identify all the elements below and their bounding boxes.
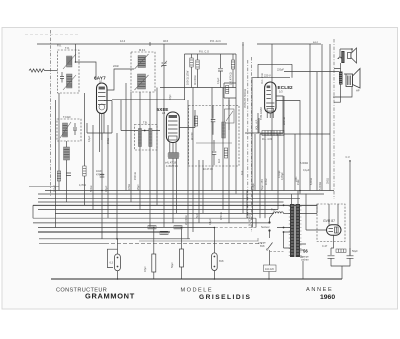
- coil L1b: [63, 74, 76, 90]
- resistor R14: [224, 148, 227, 158]
- coil L7: [222, 122, 226, 138]
- svg-text:ANNEE: ANNEE: [306, 287, 333, 293]
- capacitor C1: [60, 72, 64, 83]
- output transformer TR2 winding: [339, 72, 343, 85]
- resistor R2: [190, 54, 193, 88]
- coil L6b: [149, 129, 152, 147]
- wire filter bottom: [331, 266, 350, 279]
- bus line 8: [33, 217, 256, 219]
- svg-text:C.47: C.47: [322, 245, 328, 248]
- HF box top: [185, 54, 237, 100]
- wire V1 plate to T2: [107, 69, 134, 90]
- svg-text:50µF: 50µF: [352, 250, 358, 253]
- node dot T1: [75, 61, 77, 63]
- svg-text:40.000: 40.000: [191, 132, 194, 140]
- wire MF1 secondary drop: [139, 92, 141, 210]
- resistor R12: [83, 150, 86, 205]
- svg-text:1nF: 1nF: [241, 170, 244, 175]
- wire screen bus drop: [271, 44, 273, 191]
- node dots TR1: [283, 204, 285, 206]
- svg-text:5.000Ω: 5.000Ω: [300, 162, 308, 165]
- wire AVC mid drop: [192, 88, 194, 233]
- tweeter HP2: [348, 48, 357, 63]
- wire antenna coil drop: [55, 100, 57, 228]
- wire L4 leads: [66, 141, 68, 202]
- bus line 9: [33, 222, 269, 224]
- svg-text:MODELE: MODELE: [181, 288, 214, 294]
- bus line 8b dashed: [215, 227, 256, 229]
- tube V2 envelope: [166, 112, 179, 143]
- filter cap C12: [347, 248, 354, 266]
- svg-text:P.U.: P.U.: [57, 44, 62, 48]
- fold mark dashes top: [25, 34, 80, 36]
- svg-text:470KΩ: 470KΩ: [96, 174, 104, 177]
- bus line 10: [39, 238, 190, 240]
- svg-text:12.4: 12.4: [120, 39, 126, 43]
- HF box bottom: [160, 54, 236, 194]
- wire top HT rail left: [37, 43, 227, 45]
- wire switch chain: [269, 232, 271, 266]
- svg-text:6V8: 6V8: [219, 260, 224, 263]
- svg-text:C.V.: C.V.: [346, 156, 351, 159]
- wire grid leak drop: [283, 96, 285, 191]
- bus line 9b: [38, 218, 256, 227]
- wire AF coupling drop: [259, 134, 261, 218]
- svg-text:1960: 1960: [320, 294, 335, 301]
- wire HT drop: [294, 134, 296, 191]
- svg-text:6V8: 6V8: [260, 245, 265, 248]
- pilot lamp LP2: [212, 253, 218, 271]
- bus line 6: [38, 209, 278, 211]
- wire volume top drop: [228, 100, 230, 223]
- coil L5 below V2: [167, 153, 180, 159]
- transformer T2 dashed box: [131, 52, 155, 92]
- svg-text:220KΩ: 220KΩ: [283, 117, 286, 125]
- wire ECL82 grid feed: [258, 64, 292, 77]
- svg-text:TON.GRAV: TON.GRAV: [260, 107, 263, 120]
- wire antenna to T1: [51, 70, 58, 72]
- dial lamp LP1 bracket: [107, 249, 117, 267]
- capacitor C7: [66, 173, 71, 176]
- resistor R3: [196, 54, 199, 88]
- tweeter winding: [341, 51, 344, 63]
- wire V1 plate legs: [100, 114, 105, 153]
- capacitor C3: [73, 123, 77, 135]
- svg-text:T.O.: T.O.: [65, 46, 70, 50]
- svg-text:50µF: 50µF: [171, 262, 174, 268]
- capacitor C5: [211, 106, 216, 135]
- svg-text:10KΩ: 10KΩ: [265, 179, 268, 185]
- wire speaker to chassis: [333, 85, 352, 103]
- svg-text:GRISELIDIS: GRISELIDIS: [199, 294, 251, 301]
- coil L6a: [138, 129, 141, 147]
- grid resistor box: [224, 83, 236, 98]
- wire TR1 top feeds: [292, 191, 299, 205]
- wire heater down: [302, 261, 304, 279]
- resistor R9 on bus: [160, 231, 168, 234]
- svg-text:0,1µF: 0,1µF: [88, 135, 91, 142]
- capacitor C8: [100, 175, 105, 178]
- resistor R5 cathode: [262, 131, 284, 136]
- wire B+ rail drop: [329, 44, 331, 191]
- wire keyboard inner: [196, 142, 232, 144]
- svg-text:8+8µF: 8+8µF: [252, 182, 255, 190]
- svg-text:100pF: 100pF: [54, 184, 57, 192]
- electrolytic cap C9: [152, 229, 156, 279]
- transformer T1 dashed box: [58, 50, 80, 93]
- svg-text:350Ω: 350Ω: [327, 178, 330, 184]
- wire LP2 leads: [213, 228, 215, 280]
- coil L2b: [135, 74, 149, 90]
- svg-text:20.000Ω: 20.000Ω: [185, 215, 188, 225]
- wire 6AY7 grid link: [87, 101, 112, 134]
- svg-text:0,1µF: 0,1µF: [209, 218, 212, 225]
- keyboard unit dashed box: [189, 106, 240, 167]
- coil L4 below T3: [64, 147, 70, 160]
- svg-text:M.F.1: M.F.1: [139, 48, 146, 52]
- rectifier tube V4: [327, 225, 342, 235]
- junction dots: [101, 190, 103, 192]
- left stub: [32, 205, 34, 218]
- wire V3 legs: [267, 113, 273, 118]
- svg-text:5.000Ω: 5.000Ω: [319, 182, 322, 190]
- rectifier dashed box: [317, 204, 345, 242]
- svg-text:ECL82: ECL82: [278, 85, 294, 90]
- svg-text:GRAMMONT: GRAMMONT: [85, 292, 135, 301]
- wire speaker return: [349, 160, 351, 162]
- svg-text:Fus.: Fus.: [271, 208, 276, 212]
- coil L1a: [63, 54, 76, 69]
- chassis dashed line left: [50, 30, 52, 197]
- wire top rail right: [257, 43, 321, 45]
- wire volume feed: [252, 191, 254, 228]
- wire AF line: [139, 238, 258, 241]
- wire V1 plate B+ drop: [125, 83, 127, 191]
- svg-text:0,05µF: 0,05µF: [281, 172, 284, 180]
- svg-text:47pF: 47pF: [169, 94, 172, 100]
- wire rectifier bottom: [331, 235, 334, 248]
- resistor R6: [57, 171, 60, 181]
- wire L5 down: [173, 159, 177, 223]
- svg-text:6,8KΩ: 6,8KΩ: [310, 178, 313, 185]
- svg-text:POTENT. 500KΩ: POTENT. 500KΩ: [244, 89, 247, 108]
- wire ECL82 plate: [276, 101, 300, 194]
- wire trimmer drop: [163, 70, 165, 228]
- wire band switch drop: [242, 44, 244, 213]
- svg-text:220 V: 220 V: [264, 74, 271, 78]
- resistor R13: [194, 116, 197, 126]
- wire V1 grid return: [107, 125, 109, 218]
- bus line 11 faint: [39, 243, 105, 245]
- wire right top links: [284, 71, 339, 73]
- svg-text:T.B.: T.B.: [143, 121, 148, 125]
- svg-text:R.L. 4.09: R.L. 4.09: [262, 138, 273, 141]
- tweeter coil: [338, 57, 344, 59]
- tube V1 6AY7 envelope: [97, 83, 108, 114]
- wire detector drop: [222, 88, 224, 210]
- wire heater drop right: [309, 44, 311, 191]
- bus line 4: [38, 201, 284, 203]
- wire AVC stub left: [29, 186, 59, 188]
- wire rectifier left: [306, 194, 327, 231]
- svg-text:47µF: 47µF: [144, 266, 147, 272]
- svg-text:0,02µF: 0,02µF: [278, 170, 281, 178]
- wire AVC across: [112, 99, 185, 101]
- wire TR1 primary taps: [277, 205, 290, 248]
- chassis dashed line center: [251, 57, 253, 232]
- capacitor C4: [218, 54, 223, 88]
- svg-text:T.CAD: T.CAD: [63, 115, 71, 119]
- wire dashes to lamp feed: [270, 251, 284, 253]
- chassis dashed line right: [333, 39, 335, 199]
- svg-text:40.6: 40.6: [163, 39, 169, 43]
- svg-text:110.220: 110.220: [265, 268, 274, 271]
- wire osc grid: [121, 100, 160, 131]
- chassis dashed line center b: [247, 60, 249, 218]
- svg-text:cadran: cadran: [301, 259, 309, 262]
- svg-text:56: 56: [303, 249, 308, 254]
- svg-text:40.000Ω: 40.000Ω: [194, 75, 197, 85]
- wire padder drop: [202, 160, 204, 213]
- wire rectifier top: [329, 204, 338, 225]
- wire MF2 drop: [156, 88, 158, 206]
- bus line 5: [33, 204, 317, 206]
- wire ECL82 screen: [276, 96, 283, 133]
- wire T1 secondary drop: [58, 93, 60, 191]
- output stage box: [245, 118, 283, 133]
- wire cathode bypass drop: [264, 134, 266, 218]
- wire mixer drop: [211, 88, 213, 191]
- wire AGC cap drop: [149, 92, 151, 227]
- svg-text:0,1µF: 0,1µF: [217, 77, 220, 84]
- svg-text:BLINDAGE: BLINDAGE: [249, 213, 252, 226]
- mains fuse F1: [271, 208, 290, 214]
- bus line 1: [45, 190, 334, 192]
- wire ECL82 left: [252, 78, 258, 191]
- wire T1 to V1 grid: [76, 62, 97, 80]
- power transformer TR1 secondary: [296, 204, 302, 257]
- wire selector to bottom: [268, 272, 270, 280]
- wire V2 legs: [170, 143, 176, 153]
- wire LP1 leads: [117, 239, 119, 279]
- svg-text:a.s.t: a.s.t: [313, 40, 318, 44]
- capacitor C2 trimmer: [162, 44, 167, 70]
- bus line 9c: [38, 231, 170, 233]
- wire V1 screen drop: [101, 133, 103, 239]
- svg-text:5nF: 5nF: [196, 213, 199, 218]
- svg-text:Secteur: Secteur: [261, 226, 270, 229]
- svg-text:4.45.87.19: 4.45.87.19: [166, 165, 178, 168]
- power transformer TR1 primary: [289, 204, 295, 257]
- svg-text:P.O.-G.O.: P.O.-G.O.: [210, 39, 221, 43]
- wire T1 to rail: [75, 44, 77, 62]
- svg-text:22nF: 22nF: [113, 64, 119, 68]
- capacitor C6: [212, 140, 217, 165]
- bus line 7: [55, 212, 274, 214]
- resistor R10 on bus: [174, 226, 182, 229]
- bus line 2: [38, 193, 324, 195]
- svg-text:0,1µF: 0,1µF: [105, 185, 108, 192]
- wire tone cap drop: [254, 134, 256, 191]
- svg-text:200Ω: 200Ω: [107, 138, 110, 144]
- dial lamp LP1: [115, 254, 121, 271]
- bus line 3: [38, 198, 300, 200]
- bus line 11b: [105, 243, 262, 245]
- oscillator padder dashed box T4: [135, 125, 158, 151]
- oscillator coil T3 dashed box: [57, 119, 81, 141]
- wire output transformer connections: [334, 63, 346, 74]
- tube V3 ECL82 envelope: [265, 82, 276, 113]
- wire MF1 primary drop: [130, 92, 132, 202]
- wire center horizontal: [260, 133, 330, 135]
- coil L3: [60, 122, 71, 138]
- filter resistor R11: [336, 249, 346, 252]
- svg-text:1/3: 1/3: [279, 90, 283, 94]
- antenna input zigzag: [29, 69, 51, 72]
- wire V2 grid stub: [179, 110, 195, 128]
- wire tweeter top: [340, 49, 352, 57]
- svg-text:P.U. C.O: P.U. C.O: [199, 50, 209, 54]
- bottom return wire: [51, 278, 342, 280]
- resistor R4: [231, 54, 234, 88]
- wire dial lamp feed: [116, 133, 118, 239]
- voltage selector box: [264, 265, 277, 272]
- wire AVC left drop: [92, 125, 94, 210]
- svg-text:220pF: 220pF: [277, 69, 285, 72]
- wire chassis drop right: [321, 44, 323, 191]
- main speaker HP1: [346, 69, 360, 89]
- svg-text:50µF 25V: 50µF 25V: [261, 179, 264, 190]
- volume pot symbol: [225, 98, 235, 130]
- wire TR1 secondary taps: [300, 204, 317, 257]
- coil L2a: [135, 54, 149, 69]
- filter cap C11: [328, 248, 335, 266]
- wire IF bypass drop: [187, 100, 189, 239]
- svg-text:50KΩ: 50KΩ: [90, 186, 93, 192]
- svg-text:6,3: 6,3: [110, 262, 114, 265]
- svg-text:4,7KΩ: 4,7KΩ: [79, 184, 86, 187]
- svg-text:0,1µF: 0,1µF: [303, 169, 310, 172]
- wire osc anode drop: [198, 160, 200, 223]
- wire V1 anode link: [111, 101, 113, 134]
- svg-text:100KΩ 1/2W: 100KΩ 1/2W: [187, 70, 190, 85]
- resistor R8 on bus: [148, 226, 156, 229]
- wire output transformer drop: [316, 72, 318, 191]
- wire ECL82 top: [252, 64, 290, 77]
- svg-text:1nF: 1nF: [218, 158, 221, 163]
- wire output B+ drop: [277, 134, 279, 210]
- svg-text:25µF: 25µF: [137, 184, 140, 190]
- svg-text:150KΩ: 150KΩ: [134, 172, 137, 180]
- electrolytic cap C10: [180, 229, 184, 279]
- svg-text:HP: HP: [356, 89, 360, 93]
- svg-text:470Ω: 470Ω: [128, 184, 131, 190]
- wire AM line drop: [246, 191, 248, 219]
- mains switch S1: [266, 213, 273, 250]
- wire cathode R drop: [84, 93, 86, 150]
- svg-text:22nF: 22nF: [295, 176, 298, 182]
